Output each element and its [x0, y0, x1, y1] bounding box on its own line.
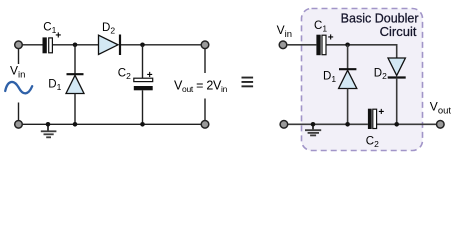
ground symbol left	[41, 124, 57, 137]
wire top rail (C1 to D2)	[53, 44, 99, 46]
node junction top (C2 branch)	[140, 43, 145, 48]
capacitor C1 (right) plate hollow (+)	[322, 35, 326, 55]
diode D2 cathode bar	[119, 35, 121, 56]
node junction top (D1 branch)	[73, 43, 78, 48]
node junction bottom (D2 right)	[394, 122, 399, 127]
wire D1 bottom	[74, 94, 76, 125]
node junction bottom (D1 right)	[345, 122, 350, 127]
wire Vin upper stub	[18, 49, 20, 64]
ground symbol right	[305, 124, 321, 135]
terminal top-left	[15, 41, 23, 49]
diode D1 (right) triangle	[339, 70, 357, 88]
svg-text:+: +	[328, 33, 334, 44]
node junction ground (right)	[311, 122, 316, 127]
terminal top-right	[201, 41, 209, 49]
wire C1 to corner	[327, 44, 397, 46]
diode D1 triangle	[66, 75, 84, 93]
equivalence symbol	[242, 77, 254, 88]
wire D2 bottom (right)	[396, 78, 398, 125]
wire Vout lower stub	[204, 99, 206, 121]
wire top rail left (terminal to C1)	[21, 44, 43, 46]
wire D1 top	[74, 45, 76, 74]
diode D2 (right) triangle	[388, 58, 405, 76]
svg-text:Circuit: Circuit	[380, 24, 417, 39]
wire Vin to C1	[287, 44, 316, 46]
svg-text:Vout = 2Vin: Vout = 2Vin	[174, 78, 228, 94]
dashed box	[302, 9, 423, 151]
wire D1 top (right)	[347, 45, 349, 69]
capacitor C2 (right) plate solid	[368, 109, 372, 129]
capacitor C2 plate hollow (+)	[134, 78, 153, 81]
terminal bottom-right	[201, 121, 209, 129]
diode D1 (right) cathode bar	[339, 68, 356, 70]
wire bottom rail	[21, 123, 203, 125]
capacitor C1 (right) plate solid	[316, 35, 320, 56]
diode D2 (right) cathode bar	[388, 76, 406, 78]
terminal Vout	[437, 121, 445, 129]
node junction bottom (D1 branch)	[73, 122, 78, 127]
wire bottom rail (terminal to C2)	[288, 123, 368, 125]
wire Vin lower stub	[18, 103, 20, 121]
wire C2 top	[142, 45, 144, 78]
wire D1 bottom (right)	[347, 89, 349, 125]
svg-text:+: +	[147, 70, 153, 81]
diode D2 triangle	[99, 35, 119, 54]
svg-text:+: +	[378, 107, 384, 118]
node junction ground	[46, 122, 51, 127]
capacitor C1 plate solid	[43, 37, 47, 53]
diode D1 cathode bar	[67, 73, 84, 75]
wire bottom rail (C2 to Vout terminal)	[377, 123, 436, 125]
terminal bottom-left	[15, 121, 23, 129]
capacitor C2 plate solid	[134, 86, 153, 90]
capacitor C1 plate hollow (+)	[49, 38, 53, 53]
wire top rail (D2 to right terminal)	[120, 44, 203, 46]
wire Vout upper stub	[204, 49, 206, 73]
AC sine symbol	[5, 82, 32, 93]
node junction top (D1 right)	[345, 43, 350, 48]
terminal bottom-left (right circuit)	[280, 121, 288, 129]
wire C2 bottom	[142, 90, 144, 124]
terminal Vin (right)	[279, 41, 287, 49]
wire corner down to D2 (right)	[396, 44, 398, 58]
capacitor C2 (right) plate hollow (+)	[373, 109, 377, 128]
node junction bottom (C2 branch)	[140, 122, 145, 127]
